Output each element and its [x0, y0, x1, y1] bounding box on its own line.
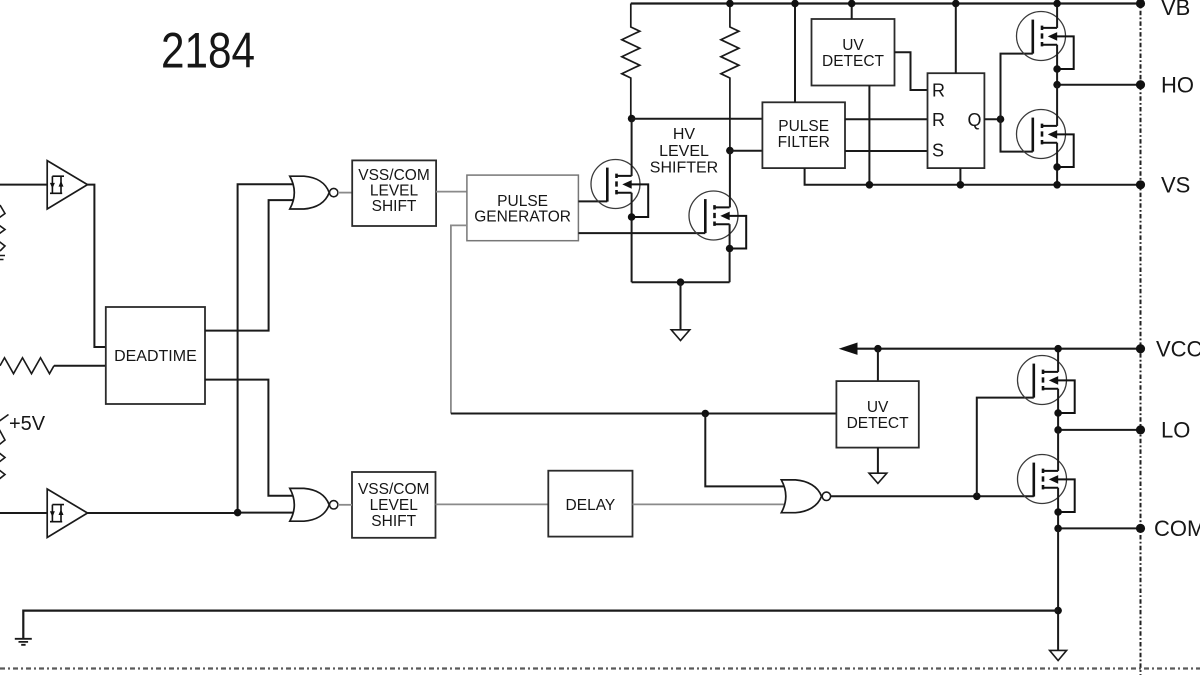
svg-text:R: R	[932, 81, 945, 101]
node VB latch stub	[952, 0, 960, 7]
wire UV detect down to VS rail	[868, 86, 870, 185]
buffer U1 HIN schmitt	[47, 161, 87, 209]
ground arrow UV2	[869, 473, 887, 483]
block PULSE GENERATOR	[467, 175, 579, 241]
terminal COM	[1136, 524, 1145, 533]
ground arrow VS	[671, 330, 690, 341]
wire junction down to NOR3 upper input	[705, 414, 787, 487]
resistor R1	[622, 4, 640, 119]
svg-text:FILTER: FILTER	[778, 134, 830, 151]
wire M4 drain	[1056, 85, 1058, 126]
transistor M6	[1018, 455, 1075, 513]
svg-text:SHIFT: SHIFT	[372, 198, 417, 215]
wire M5 drain from VCC	[1057, 349, 1059, 372]
wire Q to M3 gate	[1001, 54, 1033, 120]
wire R1 to pulse filter R	[632, 118, 763, 120]
wire Q to M4 gate	[1001, 119, 1033, 151]
transistor M4	[1017, 110, 1074, 168]
wire M6 source to COM	[1057, 488, 1059, 529]
wire junction up to M5 gate	[977, 398, 1034, 497]
terminal VS	[1136, 180, 1145, 189]
svg-text:VCC: VCC	[1156, 336, 1200, 361]
wire pulsegen out to M1 gate	[578, 200, 607, 202]
wire deadtime top out to NOR1 lower input	[205, 200, 296, 331]
svg-text:VB: VB	[1161, 0, 1190, 20]
wire HV common source rail	[632, 281, 730, 283]
block DEADTIME	[106, 307, 205, 404]
node HV source rail junction	[677, 278, 685, 286]
wire latch Q out	[984, 118, 1000, 120]
terminal VCC	[1136, 344, 1145, 353]
node M6 source-body	[1054, 508, 1062, 516]
wire pulsegen feedback down	[451, 225, 467, 413]
resistor R-LIN pulldown (partial at left edge)	[0, 415, 9, 481]
svg-text:DETECT: DETECT	[847, 415, 910, 432]
wire R2 to pulse filter S	[730, 150, 763, 152]
svg-text:LEVEL: LEVEL	[659, 143, 709, 160]
gate NOR1	[290, 176, 329, 209]
wire pulsegen out to M2 gate	[578, 232, 705, 234]
boundary dashed horizontal (IC edge)	[0, 667, 1200, 669]
wire deadtime bottom out to NOR2 upper input	[205, 380, 296, 496]
wire UV2 down stub	[877, 448, 879, 474]
block latch RS	[928, 73, 985, 168]
block UV DETECT bottom	[836, 381, 918, 448]
node R1 bottom junction	[628, 115, 636, 123]
node VB M3 drain	[1053, 0, 1061, 7]
node R2 bottom junction	[726, 147, 734, 155]
wire R-DT to deadtime	[54, 365, 106, 367]
wire HIN input	[0, 184, 47, 186]
arrow VCC	[839, 343, 858, 355]
block VSS/COM LEVEL SHIFT top	[352, 160, 436, 226]
transistor M5	[1018, 356, 1075, 414]
gate NOR2	[290, 488, 329, 521]
node M4 VS junction	[1053, 181, 1061, 189]
wire VB to pulse filter	[794, 4, 796, 103]
ground arrow COM	[1050, 650, 1067, 660]
wire LIN input	[0, 512, 47, 514]
svg-text:GENERATOR: GENERATOR	[474, 209, 571, 226]
svg-text:SHIFTER: SHIFTER	[650, 160, 718, 177]
terminal HO	[1136, 80, 1145, 89]
svg-text:HV: HV	[673, 126, 696, 143]
terminal VB	[1136, 0, 1145, 8]
node VSS stub marks	[0, 256, 5, 260]
svg-text:LEVEL: LEVEL	[370, 497, 419, 514]
resistor R2	[721, 4, 739, 151]
node R2 top	[726, 0, 734, 7]
transistor M1	[591, 160, 648, 218]
svg-text:LO: LO	[1161, 418, 1190, 443]
node M2 source-body	[726, 245, 734, 253]
node LO junction	[1054, 426, 1062, 434]
wire LO line	[1058, 429, 1140, 431]
node HO junction	[1053, 81, 1061, 89]
node VCC M5 drain	[1054, 345, 1062, 353]
wire feedback to UV detect 2	[451, 413, 837, 415]
buffer U2 LIN schmitt	[47, 489, 87, 538]
wire delay out to NOR3 lower input	[633, 503, 788, 505]
svg-text:VSS/COM: VSS/COM	[358, 167, 429, 184]
svg-text:UV: UV	[842, 37, 864, 54]
node UV VS junction	[866, 181, 874, 189]
svg-text:+5V: +5V	[9, 413, 46, 435]
wire COM down to bottom rail	[1057, 528, 1059, 650]
bubble NOR2	[330, 501, 338, 509]
wire U2 out across to NOR2 lower input	[88, 512, 297, 514]
node M5 source-body	[1054, 409, 1062, 417]
svg-text:DEADTIME: DEADTIME	[114, 348, 197, 365]
bubble NOR3	[822, 492, 830, 500]
block VSS/COM LEVEL SHIFT bottom	[352, 472, 436, 538]
wire LIN branch up to NOR1 upper input	[238, 184, 296, 512]
block DELAY	[548, 471, 632, 537]
wire M3 drain from VB	[1056, 4, 1058, 28]
transistor M3	[1017, 12, 1074, 70]
svg-text:2184: 2184	[161, 23, 255, 79]
wire HO line	[1057, 84, 1140, 86]
wire COM line	[1058, 527, 1140, 529]
svg-text:DETECT: DETECT	[822, 53, 885, 70]
resistor R-HIN pulldown (partial at left edge)	[0, 205, 5, 251]
node VB pulse filter stub	[791, 0, 799, 7]
boundary dashed vertical (IC edge)	[1140, 0, 1142, 675]
wire M6 drain	[1057, 430, 1059, 471]
node Q junction	[997, 115, 1005, 123]
wire to VS arrow	[680, 282, 682, 330]
svg-text:HO: HO	[1161, 72, 1194, 97]
svg-text:UV: UV	[867, 399, 889, 416]
node VB UV stub	[848, 0, 856, 7]
wire VCC to UV detect 2	[877, 349, 879, 381]
wire M4 source to VS	[1056, 143, 1058, 185]
wire NOR3 out to M6 gate	[831, 495, 1034, 497]
terminal LO	[1136, 425, 1145, 434]
wire M2 source down	[729, 224, 731, 282]
svg-text:DELAY: DELAY	[566, 497, 616, 514]
svg-text:PULSE: PULSE	[778, 118, 829, 135]
wire M1 source down	[631, 193, 633, 283]
wire VCC line	[857, 348, 1141, 350]
ground earth symbol	[15, 639, 32, 645]
node feedback junction	[702, 410, 710, 418]
resistor R-DT horizontal	[0, 358, 54, 374]
wire pulse filter S out to latch	[845, 150, 928, 152]
wire U1 out to deadtime	[88, 185, 106, 347]
svg-text:PULSE: PULSE	[497, 193, 548, 210]
node NOR3 out junction	[973, 493, 981, 501]
wire M3 source to HO	[1056, 45, 1058, 85]
wire bottom VSS rail	[23, 611, 1058, 639]
wire NOR1 out	[338, 192, 352, 194]
svg-text:COM: COM	[1154, 516, 1200, 541]
wire pulse filter bottom to VS rail	[805, 168, 1141, 185]
node M1 source-body	[628, 213, 636, 221]
wire latch bottom to VS rail	[959, 168, 961, 185]
wire M2 drain	[729, 151, 731, 208]
wire M1 drain	[631, 119, 633, 176]
svg-text:S: S	[932, 141, 944, 161]
svg-text:SHIFT: SHIFT	[371, 513, 416, 530]
block PULSE FILTER	[762, 102, 845, 168]
node M3 source-body	[1053, 65, 1061, 73]
wire levelshift1 to pulse generator	[436, 191, 467, 193]
wire UV detect out to latch R	[895, 52, 928, 90]
wire pulse filter R out to latch	[845, 118, 928, 120]
node VCC UV2 stub	[874, 345, 882, 353]
wire M5 source to LO	[1057, 389, 1059, 430]
wire VB to latch	[955, 4, 957, 74]
wire levelshift2 to delay	[436, 503, 549, 505]
node COM junction	[1054, 525, 1062, 533]
svg-text:LEVEL: LEVEL	[370, 183, 419, 200]
block UV DETECT top	[812, 19, 895, 86]
node M4 source-body	[1053, 163, 1061, 171]
svg-text:Q: Q	[968, 110, 982, 130]
node bottom rail junction	[1054, 607, 1062, 615]
wire top rail VB	[631, 2, 1141, 4]
svg-text:VSS/COM: VSS/COM	[358, 481, 429, 498]
bubble NOR1	[330, 188, 338, 196]
svg-text:VS: VS	[1161, 172, 1190, 197]
transistor M2	[689, 191, 746, 249]
node LIN junction	[234, 509, 242, 517]
gate NOR3	[781, 480, 821, 513]
svg-text:R: R	[932, 110, 945, 130]
node latch VS junction	[957, 181, 965, 189]
wire NOR2 out	[338, 504, 352, 506]
wire VB to UV detect	[851, 4, 853, 20]
